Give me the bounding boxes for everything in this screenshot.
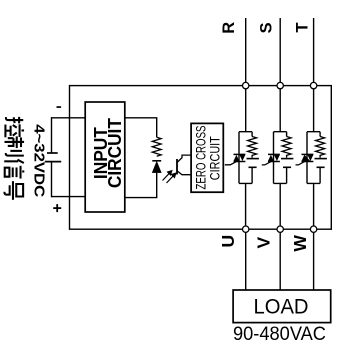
label 控 (hand-drawn) (5, 117, 24, 137)
wire: LED to input box bottom (125, 173, 157, 198)
snubber resistor R4 (316, 137, 325, 158)
channel T group (296, 132, 327, 230)
optocoupler light arrow 1 (163, 171, 172, 181)
resistor R1 (LED series) (152, 137, 161, 156)
terminal line T (313, 18, 315, 132)
svg-text:R: R (220, 22, 238, 34)
wire: battery top lead (51, 117, 53, 153)
SSR outer body box (70, 86, 332, 230)
snubber capacitor C3 (315, 159, 327, 168)
terminal circle V (277, 226, 283, 232)
LED D1 cathode bar (152, 160, 161, 162)
battery B1 short bar (47, 152, 58, 154)
zero cross circuit box U2 (191, 123, 223, 192)
channel R group (225, 132, 259, 230)
svg-text:U: U (218, 235, 238, 248)
snubber capacitor C2 (281, 159, 293, 168)
svg-text:LOAD: LOAD (254, 295, 309, 318)
wire W to load (313, 229, 315, 290)
label 号 (hand-drawn) (4, 181, 23, 200)
wire: battery bottom lead (51, 162, 53, 198)
input circuit box U1 (85, 102, 125, 212)
svg-text:V: V (254, 236, 274, 248)
phototransistor Q1 emitter (177, 171, 191, 175)
terminal circle S (277, 82, 283, 88)
phototransistor Q1 base bar (176, 159, 178, 175)
snubber resistor R2 (248, 137, 257, 158)
label plus (53, 204, 61, 212)
LOAD box (233, 290, 331, 323)
phototransistor Q1 collector (177, 155, 191, 162)
terminal circle U (243, 226, 249, 232)
snubber resistor R3 (282, 137, 291, 158)
triac Q2 gate (225, 162, 237, 165)
triac Q3 gate (262, 162, 271, 165)
svg-text:4~32VDC: 4~32VDC (31, 124, 47, 198)
terminal circle W (310, 226, 316, 232)
channel R loop (239, 132, 252, 230)
channel S loop (274, 132, 287, 230)
svg-text:T: T (294, 22, 312, 32)
terminal circle R (243, 82, 249, 88)
svg-text:CIRCUIT: CIRCUIT (105, 118, 125, 188)
triac Q4 (302, 154, 314, 161)
svg-text:S: S (258, 22, 276, 33)
label 制 (hand-drawn) (4, 136, 24, 155)
optocoupler light arrow 2 (167, 173, 176, 183)
triac Q3 (268, 154, 280, 161)
svg-text:CIRCUIT: CIRCUIT (207, 136, 223, 180)
triac Q4 gate (296, 162, 305, 165)
wire: input box to LED resistor top (125, 118, 157, 138)
terminal line S (279, 18, 281, 132)
LED D1 triangle (152, 162, 161, 173)
snubber capacitor C1 (247, 159, 259, 168)
label minus (57, 106, 62, 108)
battery B1 long bar (45, 161, 61, 163)
wire V to load (279, 229, 281, 290)
wire: control plus (bottom) (52, 196, 86, 198)
triac Q2 (234, 154, 246, 161)
channel S group (262, 132, 294, 230)
svg-text:90-480VAC: 90-480VAC (233, 324, 326, 345)
svg-text:W: W (290, 235, 310, 252)
wire: control minus (top) (52, 117, 86, 119)
channel T loop (307, 132, 320, 230)
terminal line R (245, 18, 247, 132)
label 信 (hand-drawn) (4, 160, 24, 179)
wire U to load (245, 229, 247, 290)
terminal circle T (310, 82, 316, 88)
